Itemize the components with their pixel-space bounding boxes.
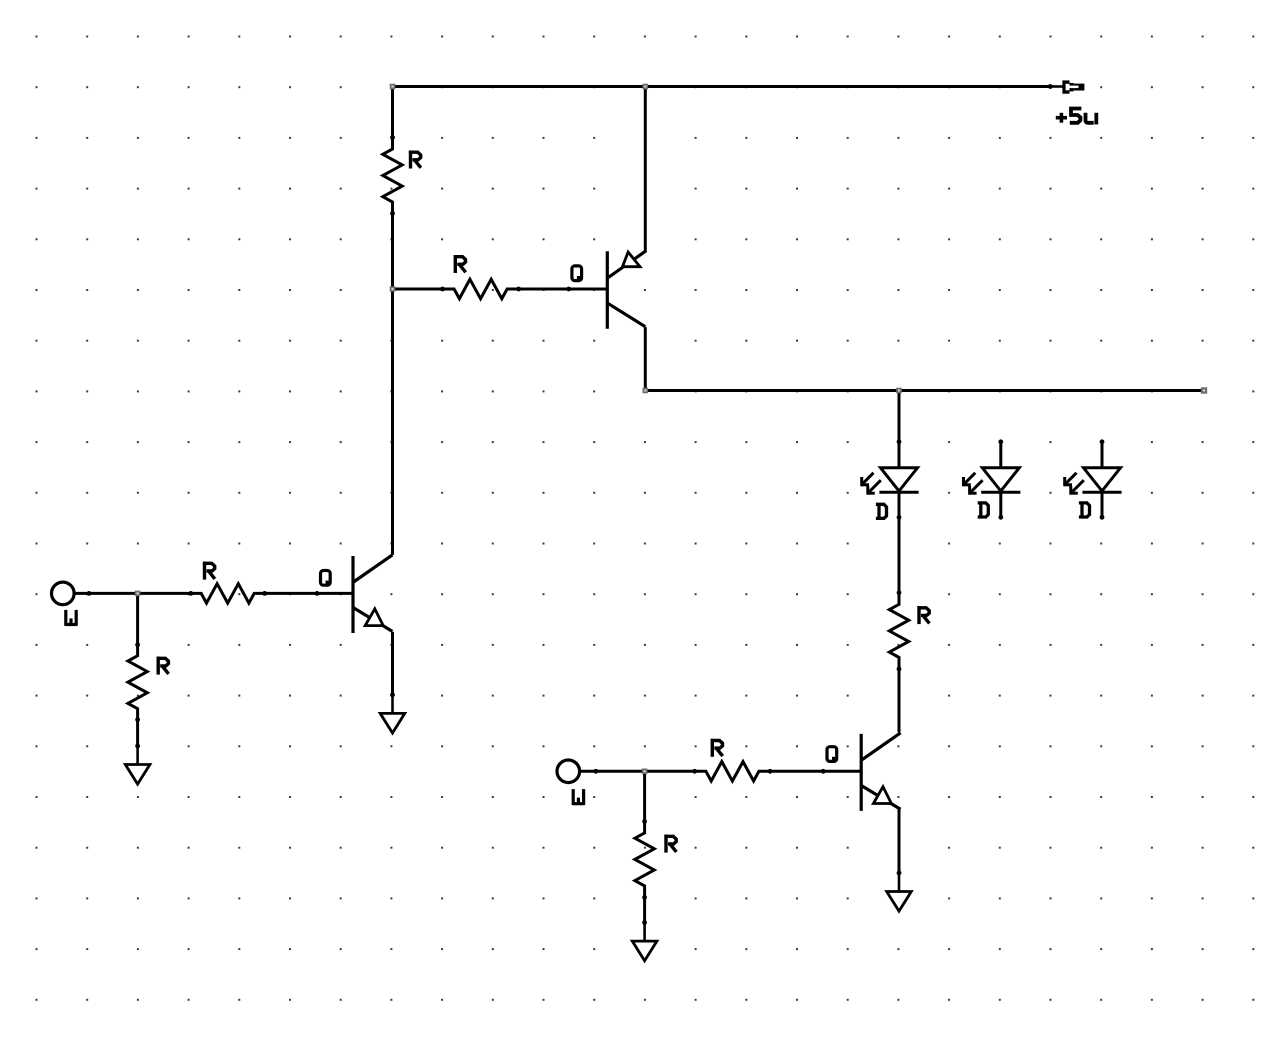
wire node B to R2 xyxy=(393,288,443,291)
resistor R7 xyxy=(635,819,677,900)
ground for R4 xyxy=(125,744,150,785)
resistor R5 xyxy=(889,590,929,671)
wire Q2 emitter to ground xyxy=(391,632,394,695)
transistor Q3 xyxy=(827,733,901,811)
resistor R6 xyxy=(692,739,772,781)
wire R2 to Q1 base xyxy=(519,287,608,292)
ground for Q2 xyxy=(380,692,405,733)
wire +5v rail top xyxy=(393,85,1051,88)
power arrow +5v xyxy=(1048,80,1085,93)
ground for R7 xyxy=(632,920,657,961)
LED D1 xyxy=(861,439,919,519)
wire LED D1 to R5 xyxy=(898,517,901,592)
node H wire end xyxy=(1201,387,1207,393)
wire node C to R3 xyxy=(138,592,191,595)
resistor R3 xyxy=(188,562,267,604)
wire R7 to ground xyxy=(643,897,646,922)
wire W1 pin to node C xyxy=(74,591,138,596)
wire node E to R7 xyxy=(643,771,646,821)
node E junction xyxy=(642,769,648,775)
node B junction xyxy=(390,286,396,292)
wire Q1 emitter to +5v rail xyxy=(644,87,647,251)
wire node C to R4 xyxy=(136,593,139,644)
resistor R1 xyxy=(383,135,421,216)
transistor Q2 xyxy=(321,555,393,633)
wire node D to LED D1 xyxy=(898,391,901,442)
wire R4 to ground xyxy=(136,720,139,746)
LED D2 xyxy=(963,439,1021,519)
wire node E to R6 xyxy=(645,770,695,773)
LED D3 xyxy=(1064,439,1122,519)
wire node A to R1 xyxy=(391,87,394,138)
wire Q3 emitter to ground xyxy=(898,809,901,873)
wire output rail xyxy=(645,389,1204,392)
wire W2 pin to node E xyxy=(580,769,645,774)
node C junction xyxy=(135,591,141,597)
node A junction xyxy=(390,84,396,90)
node G junction xyxy=(643,388,649,394)
ground for Q3 xyxy=(887,871,912,912)
wire R3 to Q2 base xyxy=(265,591,353,596)
resistor R4 xyxy=(128,642,169,722)
node D junction xyxy=(896,388,902,394)
node F junction xyxy=(643,84,649,90)
transistor Q1 xyxy=(572,251,646,329)
wire R5 to Q3 collector xyxy=(898,669,901,732)
label +5v xyxy=(1056,109,1097,125)
resistor R2 xyxy=(440,255,521,299)
wire Q1 collector down xyxy=(644,327,647,390)
wire R6 to Q3 base xyxy=(770,769,861,774)
wire R1 to Q2 collector xyxy=(391,214,394,555)
input pin W2 xyxy=(557,760,584,805)
input pin W1 xyxy=(52,582,77,626)
